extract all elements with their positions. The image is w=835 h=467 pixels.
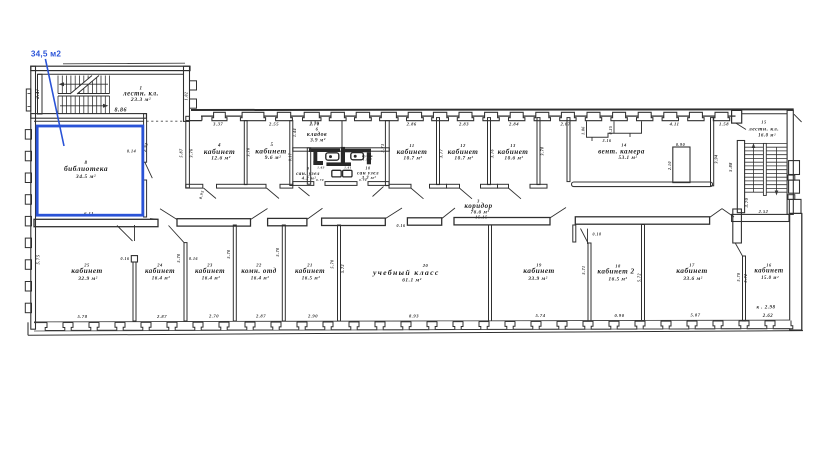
stair arrow upper flight pointing left bbox=[62, 83, 108, 85]
inner top wall line of stair block bbox=[38, 73, 184, 75]
svg-text:1.02: 1.02 bbox=[185, 92, 189, 101]
bottom wall teeth bbox=[45, 322, 65, 330]
window recess left wall bbox=[26, 89, 31, 111]
stairs landing double line bbox=[58, 93, 110, 95]
svg-text:5.78: 5.78 bbox=[736, 273, 741, 282]
door swings rooms 11-13 bbox=[411, 188, 424, 199]
svg-text:2.83: 2.83 bbox=[458, 121, 469, 126]
svg-text:0.16: 0.16 bbox=[121, 256, 130, 261]
svg-text:61.1 м²: 61.1 м² bbox=[402, 278, 422, 284]
svg-text:53.1 м²: 53.1 м² bbox=[619, 155, 638, 161]
svg-text:2.70: 2.70 bbox=[208, 314, 219, 319]
radiator box 3 bbox=[789, 199, 801, 213]
svg-text:5.75: 5.75 bbox=[36, 254, 41, 264]
stair arrow lower flight pointing right bbox=[60, 105, 105, 107]
svg-text:0.90: 0.90 bbox=[676, 142, 686, 147]
vent duct structure bbox=[587, 121, 642, 137]
wall below corridor at right stair bbox=[733, 209, 742, 243]
stair diagonal break band bbox=[70, 76, 99, 95]
svg-text:0.16: 0.16 bbox=[397, 223, 406, 228]
stair arrow up bbox=[753, 146, 755, 192]
svg-text:5.78: 5.78 bbox=[77, 314, 87, 319]
library right wall door swing bbox=[145, 162, 153, 178]
svg-text:2.87: 2.87 bbox=[255, 314, 266, 319]
svg-text:2.70: 2.70 bbox=[309, 121, 320, 126]
svg-text:3.76: 3.76 bbox=[189, 148, 194, 159]
wall between rooms 12 and 13 bbox=[488, 118, 491, 185]
svg-text:33.6 м²: 33.6 м² bbox=[682, 276, 703, 282]
svg-text:1.06: 1.06 bbox=[581, 126, 585, 135]
sink left bbox=[332, 170, 341, 177]
svg-text:3.37: 3.37 bbox=[212, 121, 223, 126]
svg-text:5.70: 5.70 bbox=[329, 259, 334, 269]
corridor wall bars bbox=[34, 219, 158, 226]
wall between san block and room 11 bbox=[385, 121, 389, 186]
svg-text:0.70: 0.70 bbox=[316, 178, 324, 182]
svg-text:0.16: 0.16 bbox=[189, 256, 198, 261]
library top wall thin line bbox=[34, 120, 144, 122]
right stair treads bbox=[745, 142, 787, 144]
small diagonal at top-right corner bbox=[794, 114, 802, 122]
bar1 angled right end cap bbox=[150, 218, 158, 221]
blue leader line bbox=[45, 59, 64, 146]
svg-text:15.0 м²: 15.0 м² bbox=[761, 275, 779, 281]
kladovaya bottom wall bbox=[293, 148, 390, 151]
svg-text:0.70: 0.70 bbox=[359, 178, 367, 182]
svg-text:5.72: 5.72 bbox=[340, 264, 345, 273]
dashed corridor line right of stair block bbox=[146, 120, 185, 122]
wall left of room 4 bbox=[186, 116, 190, 188]
door swing room 5 bbox=[267, 188, 280, 199]
right stair bottom wall bbox=[732, 214, 789, 221]
svg-text:10.7 м²: 10.7 м² bbox=[455, 156, 474, 162]
svg-text:2.86: 2.86 bbox=[406, 121, 417, 126]
svg-text:4.11: 4.11 bbox=[669, 121, 680, 126]
svg-text:комн. отд: комн. отд bbox=[241, 267, 277, 275]
wall between rooms 4 and 5 bbox=[244, 121, 247, 185]
svg-text:3.76: 3.76 bbox=[490, 148, 495, 159]
svg-text:16.4 м²: 16.4 м² bbox=[202, 276, 220, 282]
san uzel 8 thick walls (left toilet room) bbox=[309, 148, 340, 152]
vent bottom free wall bbox=[572, 182, 713, 187]
svg-text:2.10: 2.10 bbox=[667, 161, 672, 171]
svg-text:5.70: 5.70 bbox=[176, 253, 181, 263]
connector stub bbox=[788, 175, 795, 180]
svg-text:1.44: 1.44 bbox=[292, 128, 297, 137]
wall between rooms 25 and 24 bbox=[134, 225, 136, 241]
radiator box 2 bbox=[789, 180, 800, 193]
svg-text:3.76: 3.76 bbox=[246, 147, 251, 158]
wall between rooms 17 and 16 bbox=[743, 256, 746, 321]
bottom wall under rooms 4-5 bbox=[217, 184, 267, 188]
top wall pilasters bbox=[201, 115, 214, 117]
san uzel right toilet thick walls bbox=[345, 149, 371, 153]
svg-text:кабинет 2: кабинет 2 bbox=[597, 268, 634, 276]
svg-text:к . 2.98: к . 2.98 bbox=[756, 306, 775, 311]
svg-text:кабинет: кабинет bbox=[295, 267, 325, 275]
svg-text:5.72: 5.72 bbox=[637, 273, 642, 282]
svg-text:0.18: 0.18 bbox=[593, 232, 602, 237]
svg-text:34.5 м²: 34.5 м² bbox=[75, 174, 96, 180]
right wall of left stair block bbox=[184, 66, 190, 121]
wall between rooms 18 and 17 bbox=[642, 225, 645, 322]
svg-text:1.58: 1.58 bbox=[719, 121, 729, 126]
svg-text:5.72: 5.72 bbox=[743, 274, 748, 283]
door swing room 25 bbox=[117, 226, 133, 242]
svg-text:12.6 м²: 12.6 м² bbox=[211, 155, 231, 161]
svg-text:34,5 м2: 34,5 м2 bbox=[31, 50, 61, 59]
corridor door swings bbox=[160, 209, 177, 220]
svg-text:кладов: кладов bbox=[307, 131, 327, 138]
vent kamera left wall bbox=[567, 118, 570, 182]
svg-text:16.5 м²: 16.5 м² bbox=[609, 276, 628, 282]
center thick wall between toilets bbox=[341, 147, 345, 166]
svg-text:кабинет: кабинет bbox=[145, 267, 175, 275]
svg-text:3.73: 3.73 bbox=[380, 144, 385, 154]
svg-text:16.4 м²: 16.4 м² bbox=[152, 276, 170, 282]
radiator box 1 bbox=[789, 161, 800, 175]
svg-text:2.62: 2.62 bbox=[762, 314, 773, 319]
svg-text:5.71: 5.71 bbox=[581, 265, 586, 274]
stairs upper flight treads bbox=[57, 76, 59, 94]
library left wall teeth bbox=[25, 130, 31, 140]
corridor end double door lambda bbox=[710, 209, 722, 218]
svg-text:5.70: 5.70 bbox=[226, 249, 231, 259]
san bottom wall segments bbox=[293, 182, 314, 186]
bottom wall base line bbox=[34, 321, 790, 323]
ground line under bottom wall bbox=[28, 331, 803, 336]
library right wall upper bbox=[144, 114, 147, 163]
svg-text:учебный класс: учебный класс bbox=[372, 268, 440, 277]
horizontal thick band below toilets bbox=[326, 162, 351, 166]
svg-text:4.2 м²: 4.2 м² bbox=[301, 176, 317, 181]
stairs lower flight treads bbox=[57, 96, 59, 114]
svg-text:кабинет: кабинет bbox=[195, 267, 225, 275]
svg-text:1.63: 1.63 bbox=[317, 166, 325, 170]
library right wall lower bbox=[144, 180, 147, 217]
wall right of room 13 bbox=[537, 118, 540, 185]
svg-text:лестн. кл.: лестн. кл. bbox=[748, 127, 779, 133]
svg-text:33.9 м²: 33.9 м² bbox=[527, 276, 548, 282]
bumps on right side of stair block wall bbox=[190, 81, 197, 90]
wall between rooms 11 and 12 bbox=[437, 118, 440, 185]
bottom wall segments rooms 11-13 bbox=[389, 184, 411, 188]
svg-text:9.6 м²: 9.6 м² bbox=[265, 155, 281, 161]
svg-text:16.5 м²: 16.5 м² bbox=[302, 276, 320, 282]
right stair top-left corner block bbox=[732, 110, 742, 123]
toilet fixture right room bbox=[351, 153, 364, 160]
svg-text:2.90: 2.90 bbox=[307, 314, 318, 319]
top wall left end step bbox=[186, 120, 202, 122]
svg-text:8.93: 8.93 bbox=[409, 313, 419, 318]
svg-text:3.16: 3.16 bbox=[602, 138, 612, 143]
main top wall band bbox=[191, 108, 794, 111]
svg-text:15: 15 bbox=[761, 120, 767, 125]
svg-text:0.17: 0.17 bbox=[289, 153, 293, 161]
svg-text:3.94: 3.94 bbox=[714, 154, 719, 164]
svg-text:32.9 м²: 32.9 м² bbox=[77, 276, 98, 282]
svg-text:2.84: 2.84 bbox=[508, 121, 519, 126]
svg-text:2.87: 2.87 bbox=[156, 314, 167, 319]
svg-text:16.0 м²: 16.0 м² bbox=[758, 132, 776, 138]
svg-text:3.77: 3.77 bbox=[439, 148, 444, 159]
blue highlight rectangle over library bbox=[37, 126, 143, 215]
svg-text:5.74: 5.74 bbox=[535, 313, 545, 318]
toilet fixture room 8 bbox=[326, 153, 339, 160]
svg-text:16.4 м²: 16.4 м² bbox=[251, 276, 269, 282]
svg-text:5.87: 5.87 bbox=[179, 148, 184, 158]
svg-text:0.25: 0.25 bbox=[609, 126, 613, 135]
svg-text:16: 16 bbox=[766, 262, 772, 267]
svg-text:кабинет: кабинет bbox=[676, 266, 708, 275]
bottom-right corner vertical bbox=[801, 213, 803, 330]
stair arrow down bbox=[776, 147, 778, 193]
wall between rooms 20 and 19 bbox=[489, 225, 492, 321]
svg-text:5.87: 5.87 bbox=[690, 313, 700, 318]
right stair stringer bbox=[763, 143, 766, 195]
wall between rooms 21 and 20 bbox=[338, 225, 341, 321]
connector stub 2 bbox=[788, 195, 795, 200]
svg-text:8.86: 8.86 bbox=[115, 108, 128, 114]
door swing room 4 bbox=[204, 188, 217, 199]
wall between rooms 23 and 22 bbox=[233, 225, 236, 321]
svg-text:6: 6 bbox=[316, 127, 319, 132]
svg-text:2.87: 2.87 bbox=[559, 121, 570, 126]
bottom wall of stair block bbox=[31, 114, 147, 119]
svg-text:2.47: 2.47 bbox=[36, 88, 41, 99]
right outer wall lower band bbox=[790, 213, 802, 330]
svg-text:1.61: 1.61 bbox=[344, 166, 352, 170]
right outer wall upper band bbox=[787, 110, 793, 214]
svg-text:0.14: 0.14 bbox=[127, 149, 136, 154]
svg-text:3.78: 3.78 bbox=[540, 146, 545, 157]
wall between rooms 24 and 23 bbox=[184, 243, 187, 321]
svg-text:10.7 м²: 10.7 м² bbox=[404, 156, 423, 162]
door swing into right stair bbox=[736, 123, 746, 129]
wall between room 5 and kladovaya bbox=[290, 121, 293, 186]
wall segment left of san block bbox=[280, 184, 293, 188]
left outer wall upper bbox=[31, 66, 36, 329]
inner left wall of stair cage bbox=[38, 74, 43, 114]
san left lobby wall bbox=[307, 148, 310, 184]
svg-text:3.9 м²: 3.9 м² bbox=[309, 138, 325, 144]
svg-text:2.52: 2.52 bbox=[758, 209, 769, 214]
svg-text:5.88: 5.88 bbox=[728, 162, 733, 172]
sink right bbox=[343, 170, 352, 177]
svg-text:10.6 м²: 10.6 м² bbox=[505, 156, 524, 162]
svg-text:кабинет: кабинет bbox=[754, 268, 783, 275]
svg-text:кабинет: кабинет bbox=[71, 266, 103, 275]
bottom-left outer corner bbox=[27, 322, 29, 335]
top wall right plain section lower line bbox=[742, 113, 787, 115]
kladovaya right wall bbox=[341, 121, 343, 148]
wall stub below corridor bar at room 19 left bbox=[573, 225, 576, 242]
wall between rooms 19 and 18 bbox=[587, 229, 589, 244]
svg-text:0.90: 0.90 bbox=[614, 313, 624, 318]
vent kamera right wall double bbox=[711, 118, 714, 186]
svg-text:кабинет: кабинет bbox=[523, 266, 555, 275]
svg-text:5.70: 5.70 bbox=[275, 247, 280, 257]
room 4 bottom wall stub bbox=[186, 184, 203, 188]
outer top wall of left stair block bbox=[63, 62, 185, 65]
door swings into corridor from san bbox=[299, 187, 310, 196]
vent column rect bbox=[673, 147, 690, 183]
svg-text:3.70: 3.70 bbox=[744, 197, 749, 208]
right stair left wall bbox=[737, 141, 744, 213]
wall between rooms 22 and 21 bbox=[282, 225, 285, 321]
svg-text:библиотека: библиотека bbox=[64, 164, 108, 173]
svg-text:1.1м²: 1.1м² bbox=[363, 157, 373, 161]
svg-text:23.3 м²: 23.3 м² bbox=[130, 97, 151, 103]
svg-text:2.55: 2.55 bbox=[268, 121, 279, 126]
